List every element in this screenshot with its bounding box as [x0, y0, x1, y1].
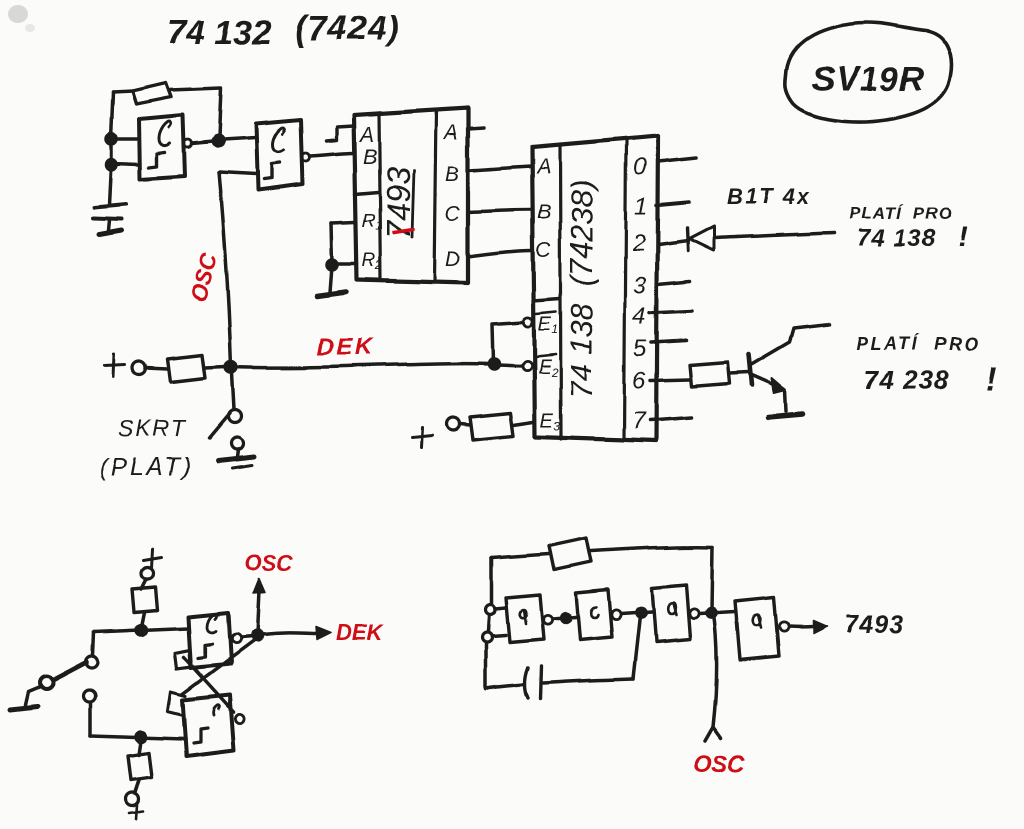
wire QD to 74138 C: [468, 251, 532, 257]
svg-text:SKRT: SKRT: [118, 415, 187, 441]
svg-text:PLATÍ PRO: PLATÍ PRO: [849, 204, 953, 223]
svg-text:74 138: 74 138: [857, 225, 936, 252]
gate U1a NAND schmitt: [139, 115, 185, 179]
node SV19R bubble: [785, 23, 952, 122]
capacitor C-ring plate2: [540, 666, 541, 699]
IC U3 left column divider: [533, 299, 560, 301]
svg-text:74 238: 74 238: [864, 365, 950, 395]
svg-text:(PLAT): (PLAT): [99, 453, 194, 481]
title label 74 132 (7424): [167, 10, 399, 52]
svg-text:0: 0: [633, 154, 647, 181]
terminal circle bottom: [126, 793, 139, 806]
svg-text:C: C: [536, 239, 552, 262]
transistor Q1 collector: [751, 324, 829, 365]
inverter G2 glyph: [591, 607, 598, 618]
wire gate1 input top: [111, 137, 139, 141]
svg-text:7493: 7493: [844, 611, 904, 639]
node DEK junction: [226, 362, 237, 373]
node input junction bottom: [106, 159, 116, 169]
IC U3 74138 box: [532, 136, 658, 441]
ring osc: input terminal circles: [485, 605, 495, 615]
clock pulse symbol at A input: [327, 126, 354, 141]
wire left vertical up: [489, 558, 493, 604]
capacitor C-ring plate1: [525, 668, 528, 698]
wire gate2 out to 7493 B: [310, 153, 354, 156]
inverter G3 bubble: [689, 609, 698, 618]
svg-text:5: 5: [633, 335, 647, 362]
svg-text:OSC: OSC: [693, 751, 746, 778]
wire between input circles: [488, 616, 489, 632]
diode D1 bar: [687, 228, 688, 251]
transistor Q1 base bar: [749, 354, 752, 385]
wire left vertical to throw1: [93, 632, 94, 655]
IC U3 inner line right: [624, 139, 626, 440]
gate U1a hysteresis curl: [159, 121, 171, 145]
node ff bottom junction: [136, 732, 146, 742]
wire resistor to node: [141, 612, 144, 627]
switch throw1 circle: [86, 656, 98, 668]
wire top to resistor: [491, 554, 549, 558]
wire cross coupling 2: [184, 657, 234, 712]
red tick on 7493: [394, 230, 413, 233]
wire OSC vertical down to DEK node: [219, 172, 231, 367]
wire junction to gate2: [223, 138, 256, 140]
IC U2 inner line left: [379, 113, 381, 280]
capacitor C-osc1 plate1: [94, 204, 126, 207]
wire diode to right: [714, 233, 834, 238]
wire cross coupling 1: [183, 641, 254, 694]
wire node to switch: [232, 373, 234, 410]
resistor R-ff-top: [132, 587, 157, 612]
wire OSC arrow up: [257, 590, 259, 634]
switch S1 contact bottom: [231, 438, 243, 450]
wire resistor to E3 pin: [513, 422, 533, 425]
plus terminal E3: [412, 427, 432, 447]
svg-text:DEK: DEK: [317, 334, 374, 361]
wire O3 stub: [658, 281, 690, 284]
ground under switch: [218, 457, 254, 461]
wire switch to ground: [237, 450, 238, 457]
node G1-G2: [562, 614, 571, 623]
wire resistor to node: [205, 367, 226, 368]
gate U4a box: [188, 613, 231, 668]
diode D1 triangle: [689, 226, 714, 251]
svg-text:B: B: [537, 201, 551, 224]
resistor R-osc1: [132, 83, 171, 104]
gate U4a curl: [207, 614, 216, 632]
plus terminal DEK: [104, 355, 125, 377]
wire QC to 74138 B: [468, 210, 532, 212]
wire G3 to G4: [699, 612, 735, 614]
wire gate1 input bottom: [111, 163, 139, 164]
capacitor stub to ground: [108, 220, 109, 230]
wire G4 arrow out: [790, 625, 815, 629]
node at E2 branch: [489, 359, 499, 369]
inverter G1 bubble: [543, 615, 552, 624]
transistor Q1 emitter arrow: [772, 378, 786, 393]
flipflop: terminal circle top: [141, 567, 153, 579]
wire inputs to G1: [492, 608, 506, 637]
wire O7 stub: [650, 418, 692, 421]
node input junction top: [106, 134, 116, 144]
gate U4a input tab: [175, 650, 192, 669]
switch S2 pole circle: [40, 677, 53, 690]
wire top feedback left: [113, 91, 133, 92]
wire QA stub: [468, 128, 484, 129]
wire DEK horizontal: [231, 364, 491, 368]
resistor R-e3: [470, 413, 513, 440]
svg-text:(7424): (7424): [295, 10, 399, 48]
svg-text:A: A: [535, 155, 551, 178]
gate U4a output bubble: [231, 634, 240, 643]
wire O0 stub: [658, 158, 697, 162]
wire to resistor E3: [460, 424, 470, 425]
inverter G2 box: [576, 590, 612, 640]
wire node to resistor bottom: [139, 741, 141, 755]
svg-text:A: A: [442, 121, 458, 144]
svg-text:SV19R: SV19R: [812, 60, 925, 98]
wire left vertical down: [484, 644, 488, 688]
svg-text:7: 7: [632, 408, 647, 435]
ground at switch pole: [10, 707, 37, 710]
svg-text:B: B: [445, 163, 459, 186]
svg-text:B1T 4x: B1T 4x: [727, 184, 811, 209]
resistor R-dek: [168, 355, 205, 382]
flipflop: plus terminal top: [143, 549, 161, 568]
node G3-G4: [706, 608, 715, 617]
wire ff bottom horizontal: [90, 736, 186, 739]
ground under Q1: [768, 414, 802, 417]
terminal circle DEK: [133, 362, 146, 375]
plus terminal bottom: [129, 805, 143, 819]
ground under 7493 resets: [317, 292, 346, 296]
node ff output junction: [252, 631, 262, 641]
wire gate1 out to junction: [192, 141, 213, 143]
wire up to E1: [492, 322, 523, 363]
inverter G4 bubble: [779, 622, 788, 631]
inverter G3 glyph: [668, 603, 676, 615]
wire R1 input: [331, 222, 355, 223]
svg-text:DEK: DEK: [336, 620, 385, 645]
wire feedback up to node: [633, 616, 640, 679]
wire R2 input: [333, 262, 357, 266]
wire to ground: [330, 266, 332, 292]
node ff top junction: [136, 625, 146, 635]
wire plus to resistor: [146, 368, 168, 369]
terminal circle E3: [447, 418, 460, 431]
resistor R-ring: [549, 538, 591, 570]
gate U4b box: [183, 695, 234, 756]
IC U2 left column divider: [355, 192, 379, 194]
inverter G1 glyph: [520, 610, 527, 624]
arrowhead DEK right: [316, 627, 331, 640]
wire O5 stub: [651, 340, 686, 342]
svg-text:6: 6: [632, 367, 646, 394]
svg-text:3: 3: [633, 272, 647, 299]
svg-text:!: !: [986, 360, 997, 397]
wire DEK arrow right: [262, 633, 318, 635]
wire emitter down: [785, 390, 786, 411]
pin bubble E2: [522, 361, 531, 370]
wire ff top horizontal: [94, 628, 188, 632]
inverter G2 bubble: [611, 610, 620, 619]
switch throw2 circle: [83, 691, 95, 703]
capacitor C-osc1 plate2: [93, 218, 121, 219]
wire OSC tap down: [713, 618, 717, 727]
wire QB to 74138 A: [468, 166, 532, 170]
wire left vertical to throw2: [88, 704, 92, 736]
underline of 7493: [412, 170, 414, 237]
arrowhead OSC up: [253, 578, 265, 593]
gate U4a step symbol: [198, 644, 212, 658]
svg-text:OSC: OSC: [245, 550, 294, 575]
svg-text:A: A: [358, 123, 374, 146]
inverter G4 glyph: [753, 615, 761, 628]
IC U3 inner line left: [560, 144, 561, 439]
wire terminal to resistor: [141, 579, 146, 589]
gate U4b output bubble: [235, 714, 244, 723]
fork at OSC tap: [705, 727, 721, 741]
gate U1b output bubble: [302, 153, 310, 161]
gate U1a step symbol: [149, 152, 165, 167]
switch S1 contact top: [229, 411, 242, 424]
resistor R-ff-bottom: [128, 753, 152, 780]
wire G2 to G3: [621, 612, 652, 614]
node junction gate1 out: [213, 136, 223, 146]
wire gate2 lower input: [219, 172, 256, 174]
switch S2 lever: [53, 662, 87, 680]
wire O2 to diode: [658, 241, 688, 245]
svg-text:1: 1: [634, 193, 647, 220]
wire bottom feedback left: [486, 684, 524, 688]
svg-text:2: 2: [631, 230, 645, 257]
wire right vertical down: [711, 547, 712, 610]
IC U2 7493 box: [354, 108, 468, 283]
svg-text:D: D: [445, 248, 460, 271]
arrowhead out: [813, 621, 827, 634]
wire R1-R2 tie vertical: [331, 223, 332, 264]
gate U1a output bubble: [184, 139, 192, 147]
IC U2 inner line right: [434, 110, 436, 282]
wire resistor to terminal: [135, 780, 139, 792]
transistor Q1 emitter: [752, 375, 784, 389]
svg-text:!: !: [958, 220, 968, 253]
wire G1 to G2: [553, 617, 576, 619]
node R tie junction: [327, 260, 337, 270]
pin bubble E1: [523, 317, 532, 326]
inverter G3 box: [652, 585, 690, 642]
svg-text:74 132: 74 132: [167, 14, 271, 52]
wire resistor to base: [730, 372, 749, 373]
gate U1b step symbol: [264, 163, 280, 179]
wire to E2 bubble: [497, 365, 522, 366]
inverter G1 box: [506, 595, 544, 643]
gate U1b hysteresis curl: [273, 128, 285, 152]
gate U1b NAND schmitt: [256, 120, 303, 190]
switch S1 lever: [209, 414, 230, 439]
wire top feedback right: [170, 88, 221, 137]
wire O4 stub: [650, 311, 692, 313]
node G2-G3: [636, 608, 645, 617]
svg-text:C: C: [444, 203, 460, 226]
gate U4b step symbol: [194, 728, 208, 743]
wire pole to ground: [25, 687, 40, 705]
svg-text:74 138 (74238): 74 138 (74238): [564, 180, 599, 399]
gate U4b curl: [214, 705, 220, 715]
wire O1 stub: [656, 202, 689, 205]
gate U4b input tab: [168, 692, 186, 716]
resistor R-base: [690, 362, 730, 386]
wire O6 to resistor: [650, 379, 690, 380]
wire resistor to right vertical: [591, 547, 712, 551]
wire bottom feedback right: [543, 679, 633, 683]
wire left vertical of oscillator: [109, 92, 113, 205]
ground under capacitor: [99, 230, 121, 234]
svg-text:B: B: [363, 145, 377, 168]
wire gate out to node: [241, 637, 253, 638]
inverter G4 box: [735, 597, 779, 660]
svg-text:4: 4: [633, 303, 646, 330]
svg-text:PLATÍ PRO: PLATÍ PRO: [856, 333, 981, 354]
